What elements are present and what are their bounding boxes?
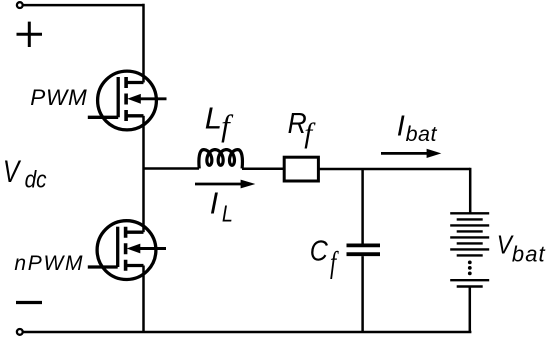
label nPWM: [14, 252, 84, 275]
wire battery to bottom rail: [469, 287, 472, 333]
svg-text:dc: dc: [25, 167, 47, 194]
svg-text:f: f: [304, 117, 316, 149]
svg-text:bat: bat: [406, 122, 438, 146]
svg-text:V: V: [3, 153, 22, 189]
wire capacitor top branch: [361, 169, 364, 244]
wire resistor to corner: [318, 168, 470, 171]
label Vbat: [497, 229, 546, 266]
minus symbol: [16, 301, 42, 304]
wire source Q1 to node: [142, 116, 145, 169]
svg-text:I: I: [210, 186, 219, 220]
wire bottom rail: [23, 331, 472, 334]
svg-text:C: C: [310, 235, 328, 267]
label Vdc: [3, 153, 47, 194]
svg-text:L: L: [222, 200, 233, 226]
svg-text:nPWM: nPWM: [14, 252, 84, 275]
svg-text:PWM: PWM: [30, 85, 87, 110]
wire top rail: [23, 4, 144, 7]
svg-text:L: L: [205, 100, 222, 135]
arrow Ibat: [381, 149, 441, 158]
wire node to inductor: [144, 167, 200, 170]
wire source Q2 to bottom rail: [142, 266, 145, 333]
label IL: [210, 186, 233, 226]
terminal bottom-left: [17, 329, 23, 335]
resistor Rf: [284, 157, 318, 181]
battery Vbat: [450, 213, 489, 286]
terminal top-left: [17, 2, 23, 8]
capacitor Cf: [347, 245, 381, 254]
svg-text:f: f: [221, 108, 234, 143]
svg-text:bat: bat: [512, 241, 546, 266]
wire drain Q1: [142, 4, 145, 83]
inductor Lf: [199, 150, 243, 169]
svg-text:I: I: [397, 111, 405, 143]
svg-text:f: f: [330, 245, 339, 279]
wire capacitor bottom branch: [361, 256, 364, 332]
wire right rail down: [469, 168, 472, 213]
transistor Q1 (PWM MOSFET): [88, 71, 167, 130]
plus symbol: [17, 22, 43, 47]
label Cf: [310, 235, 339, 279]
label Lf: [205, 100, 234, 143]
arrow IL: [195, 180, 255, 189]
label PWM: [30, 85, 87, 110]
wire inductor to resistor: [242, 167, 284, 170]
label Rf: [288, 108, 317, 149]
label Ibat: [397, 111, 438, 147]
wire node to drain Q2: [142, 169, 145, 233]
transistor Q2 (nPWM MOSFET): [88, 221, 166, 280]
